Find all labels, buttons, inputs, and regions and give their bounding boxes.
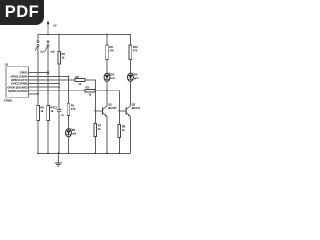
svg-text:1k: 1k xyxy=(62,55,65,59)
resistor R4 xyxy=(47,105,50,120)
wire SW2 down through row1 to R4 xyxy=(47,47,49,106)
svg-text:D4: D4 xyxy=(134,73,138,77)
wire D4 to Q2 collector xyxy=(129,81,131,106)
wire U1 pin row 5 to R5 column xyxy=(29,86,59,88)
node junction row2 / D1 column xyxy=(68,76,70,78)
wire D1 to bottom rail xyxy=(68,137,70,154)
wire R8 column xyxy=(118,111,120,154)
wire U1 pin row 3 to R2 xyxy=(29,79,75,81)
resistor R10 xyxy=(129,45,132,60)
node junctions on bottom rail xyxy=(37,152,120,154)
resistor R1 xyxy=(67,103,70,115)
node junction ground / bottom rail xyxy=(57,152,59,154)
svg-text:1n: 1n xyxy=(61,115,64,117)
svg-text:R8: R8 xyxy=(122,125,126,129)
wire R3 to Q2 base xyxy=(95,91,126,111)
svg-text:270: 270 xyxy=(109,49,114,53)
svg-text:270: 270 xyxy=(71,107,76,111)
wire D3 to Q1 collector xyxy=(106,81,108,106)
svg-text:5V: 5V xyxy=(53,24,56,28)
svg-text:Q1: Q1 xyxy=(108,102,112,106)
svg-text:GPIO0 (SDA/MO): GPIO0 (SDA/MO) xyxy=(7,85,28,89)
svg-text:1k: 1k xyxy=(98,127,101,131)
wire U1 pin row 1 to SW2 column xyxy=(29,72,48,74)
svg-text:1k: 1k xyxy=(78,82,81,86)
wire rail to R5 xyxy=(58,35,60,52)
svg-text:R5: R5 xyxy=(62,52,66,56)
resistor R2 xyxy=(75,79,85,82)
wire R10 to D4 xyxy=(129,60,131,74)
node junction row5 / R5 column xyxy=(58,86,60,88)
node pad row1 / SW2 xyxy=(47,72,49,74)
wire SW1 down to row7 and R6 xyxy=(37,47,39,106)
wire U1 pin row 7 to SW1 column xyxy=(29,93,38,95)
resistor R7 xyxy=(94,124,97,137)
wire top power rail xyxy=(38,35,130,45)
switch sw1 xyxy=(35,41,39,51)
svg-text:GPIO1 (PWM): GPIO1 (PWM) xyxy=(11,82,28,86)
svg-text:R7: R7 xyxy=(98,124,102,128)
LED D3 xyxy=(104,72,111,81)
ground xyxy=(55,153,62,166)
svg-text:BC547: BC547 xyxy=(108,106,117,110)
svg-text:1k: 1k xyxy=(88,93,91,97)
node junction Q2 base / R8 column xyxy=(118,110,120,112)
switch sw2 xyxy=(45,41,49,51)
wire bottom ground rail xyxy=(38,152,130,154)
wire rail to R9 xyxy=(106,35,108,45)
svg-text:BC547: BC547 xyxy=(132,106,141,110)
wire R7 column xyxy=(94,111,96,154)
wire C2 to bottom rail xyxy=(58,111,60,153)
wire Q2 emitter to bottom rail xyxy=(129,117,131,154)
svg-text:1k: 1k xyxy=(50,109,53,113)
node junction rail / R5 column xyxy=(58,34,60,36)
svg-text:270: 270 xyxy=(133,49,138,53)
svg-text:red: red xyxy=(72,132,77,136)
svg-text:R6: R6 xyxy=(40,106,44,110)
svg-text:GPIO3 (A3)RX: GPIO3 (A3)RX xyxy=(11,74,28,78)
LED D4 xyxy=(127,72,134,81)
transistor Q2 xyxy=(126,106,130,117)
wire R5 to C2 xyxy=(58,64,60,109)
wire U1 pin row 6 to R3 xyxy=(29,90,86,92)
node junction row2 / R5 column xyxy=(58,76,60,78)
resistor R8 xyxy=(118,125,121,138)
transistor Q1 xyxy=(103,106,107,117)
capacitor C2 xyxy=(57,109,62,111)
resistor R5 xyxy=(58,52,61,64)
svg-text:Q2: Q2 xyxy=(132,102,136,106)
svg-text:grn: grn xyxy=(134,76,139,80)
resistor R3 xyxy=(85,89,95,92)
node junction Q1 base / R7 column xyxy=(94,110,96,112)
resistor R9 xyxy=(106,45,109,60)
node junction rail / R9 column xyxy=(106,34,108,36)
LED D1 xyxy=(66,128,73,137)
node junction row7 / SW1 column xyxy=(37,93,39,95)
wire U1 pin row 2 to D1 column xyxy=(29,75,69,77)
wire R9 to D3 xyxy=(106,60,108,74)
wire R6 to bottom rail xyxy=(37,120,39,153)
svg-text:sw2: sw2 xyxy=(50,52,55,54)
U1 pin name labels xyxy=(7,70,28,93)
IC U1 xyxy=(6,67,29,98)
svg-text:GPIO4 (A2)TX: GPIO4 (A2)TX xyxy=(11,78,28,82)
PDF badge xyxy=(0,0,44,25)
svg-text:1k: 1k xyxy=(40,109,43,113)
wire R1 to D1 xyxy=(68,116,70,129)
svg-text:R1: R1 xyxy=(71,103,75,107)
resistor R6 xyxy=(37,105,40,120)
svg-text:R10: R10 xyxy=(133,45,138,49)
svg-text:U1: U1 xyxy=(5,63,9,67)
wire U1 pin row 4 to R5 column xyxy=(29,83,59,85)
svg-text:GPIO5: GPIO5 xyxy=(20,70,28,74)
svg-text:R2: R2 xyxy=(75,75,79,79)
node junction rail / SW2 column xyxy=(47,34,49,36)
wire R2 to Q1 base xyxy=(85,80,103,111)
node junction row4 / R5 column xyxy=(58,83,60,85)
wire R4 to bottom rail xyxy=(47,120,49,153)
wire Q1 emitter to bottom rail xyxy=(106,117,108,154)
power supply arrow xyxy=(47,20,50,34)
svg-text:sw1: sw1 xyxy=(40,52,45,54)
wire row2 down to R1 xyxy=(68,76,70,103)
node junction R3 wire / Q1 collector crossing xyxy=(106,90,108,92)
svg-text:R9: R9 xyxy=(109,45,113,49)
svg-text:R3: R3 xyxy=(86,86,90,90)
svg-text:GPIO2 (A1/SCK): GPIO2 (A1/SCK) xyxy=(8,89,28,93)
svg-text:C2: C2 xyxy=(54,106,58,110)
svg-text:D3: D3 xyxy=(111,73,115,77)
svg-text:AT90S: AT90S xyxy=(4,98,12,102)
svg-text:D1: D1 xyxy=(72,128,76,132)
svg-text:1k: 1k xyxy=(122,128,125,132)
svg-text:red: red xyxy=(111,76,116,80)
